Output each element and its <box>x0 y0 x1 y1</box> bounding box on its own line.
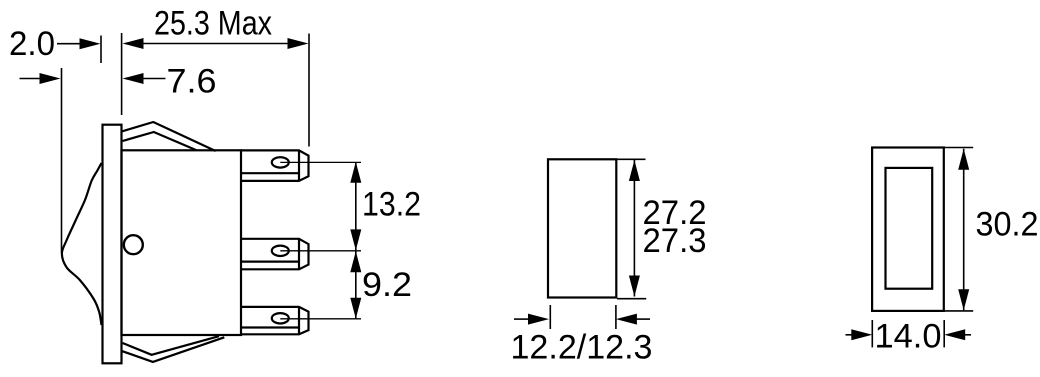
svg-text:13.2: 13.2 <box>362 186 421 224</box>
svg-text:14.0: 14.0 <box>875 318 942 356</box>
svg-text:27.3: 27.3 <box>643 222 707 260</box>
svg-text:9.2: 9.2 <box>362 266 412 304</box>
svg-text:7.6: 7.6 <box>167 62 217 100</box>
svg-text:2.0: 2.0 <box>9 25 55 63</box>
svg-text:25.3 Max: 25.3 Max <box>154 4 272 42</box>
svg-text:30.2: 30.2 <box>976 206 1039 244</box>
svg-text:12.2/12.3: 12.2/12.3 <box>511 329 653 367</box>
